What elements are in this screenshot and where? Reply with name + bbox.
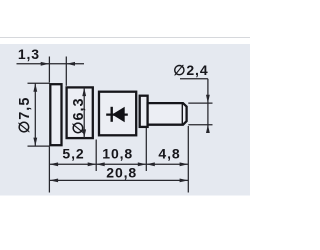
svg-text:10,8: 10,8	[102, 146, 133, 162]
svg-text:4,8: 4,8	[158, 146, 180, 162]
svg-text:∅2,4: ∅2,4	[173, 62, 208, 78]
svg-text:∅7,5: ∅7,5	[17, 97, 33, 134]
svg-text:1,3: 1,3	[18, 46, 40, 62]
svg-text:20,8: 20,8	[106, 164, 137, 180]
svg-text:∅6,3: ∅6,3	[71, 97, 87, 134]
svg-text:5,2: 5,2	[62, 146, 84, 162]
